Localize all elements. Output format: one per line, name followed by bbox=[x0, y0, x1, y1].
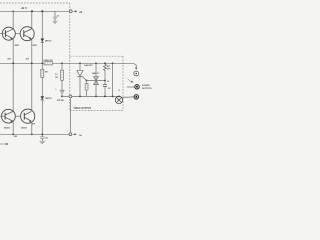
svg-text:1W: 1W bbox=[55, 77, 58, 79]
wire SCR top lead bbox=[79, 63, 81, 70]
node dot out x105 bbox=[104, 96, 106, 98]
capacitor C3 bbox=[40, 137, 45, 139]
node dot lamp bbox=[118, 96, 120, 98]
resistor R5 horizontal bbox=[44, 62, 52, 65]
wire triac TR2 top lead bbox=[95, 63, 97, 76]
node dot out x96 bbox=[95, 96, 97, 98]
wire Q1-Q2 link bbox=[15, 33, 20, 35]
node dot box x80 bbox=[79, 62, 81, 64]
svg-text:1W: 1W bbox=[45, 71, 48, 73]
node dot bottom x13 bbox=[12, 133, 14, 135]
transistor Q2 bbox=[20, 27, 34, 41]
node dot rail x13 bbox=[12, 11, 14, 13]
wire Q2 collector lead bbox=[31, 11, 33, 28]
annotation arrow bbox=[128, 79, 133, 83]
+B supply rail wire bbox=[0, 10, 69, 12]
capacitor C2 bbox=[60, 90, 65, 92]
triac output box top edge bbox=[70, 55, 123, 57]
wire Q4 emitter down bbox=[31, 122, 33, 134]
node dot rail x42 bbox=[41, 10, 43, 12]
node dot mid x62 bbox=[61, 62, 63, 64]
arrow into top terminal bbox=[135, 68, 137, 70]
wire D1 to mid rail bbox=[41, 42, 43, 69]
wire R7 to C2 bbox=[61, 80, 63, 90]
svg-text:+B V: +B V bbox=[21, 6, 28, 10]
ground bbox=[53, 21, 58, 23]
svg-text:TRIAC OUTPUT: TRIAC OUTPUT bbox=[73, 107, 91, 110]
svg-text:OUTPUTS: OUTPUTS bbox=[142, 88, 153, 90]
wire C2 to output wire bbox=[61, 92, 63, 96]
transistor Q4 bbox=[21, 109, 35, 123]
svg-text:+B: +B bbox=[79, 10, 82, 14]
resistor R8 vertical bbox=[85, 84, 88, 91]
wire output into box bbox=[72, 95, 119, 97]
terminal T2 bbox=[135, 85, 139, 89]
triac output box right edge bbox=[122, 56, 124, 110]
wire R9 down bbox=[104, 71, 106, 80]
svg-text:1 MEG 5W: 1 MEG 5W bbox=[43, 60, 53, 62]
wire to C4 bbox=[104, 81, 106, 85]
wire return vertical bbox=[69, 98, 71, 133]
wire TR2 through bbox=[95, 77, 97, 85]
wire feed to top terminal bbox=[133, 63, 136, 69]
node dot box x112 bbox=[112, 62, 114, 64]
triac TR2 bbox=[94, 77, 99, 85]
wire gate bus bbox=[87, 80, 106, 82]
diode D2 bbox=[41, 96, 45, 100]
wire Q1 emitter down bbox=[12, 39, 14, 112]
wire Q3 emitter down bbox=[12, 121, 14, 134]
wire Q3 base stub bbox=[0, 115, 5, 117]
node dot gate bus left bbox=[86, 80, 88, 82]
wire D2 to bottom rail bbox=[41, 100, 43, 137]
wire R8 top stub bbox=[86, 81, 88, 84]
lamp DS1 bbox=[115, 96, 122, 103]
svg-text:MR752: MR752 bbox=[45, 40, 52, 42]
wire R7 branch top bbox=[61, 63, 63, 70]
wire x112 vertical bbox=[112, 63, 114, 96]
arrow B+ bbox=[73, 134, 77, 136]
wire lamp to terminal bbox=[123, 96, 134, 99]
wire R6 to D2 bbox=[41, 77, 43, 96]
wire stub terminal T2 bbox=[127, 86, 135, 88]
diode D1 bbox=[41, 39, 45, 43]
transistor Q1 bbox=[2, 27, 15, 40]
wire TR2 bottom lead bbox=[95, 85, 97, 97]
terminal circle +B bbox=[69, 10, 72, 13]
wire TR1 bottom lead bbox=[79, 76, 81, 96]
wire C3 to ground bbox=[41, 139, 43, 141]
SCR TR1 bbox=[77, 71, 83, 77]
wire Q2 emitter down bbox=[31, 39, 33, 111]
terminal T1 bbox=[134, 71, 139, 76]
wire bottom rail bbox=[0, 133, 69, 135]
node dot C2 out bbox=[61, 96, 63, 98]
triac output box bottom edge bbox=[70, 110, 123, 112]
node dot out x80 bbox=[79, 96, 81, 98]
svg-text:SCREW: SCREW bbox=[142, 85, 151, 87]
dashed boundary left vertical bbox=[69, 3, 71, 111]
wire diode branch top bbox=[41, 11, 43, 38]
dashed boundary top bbox=[0, 2, 70, 4]
terminal circle output upper bbox=[69, 95, 72, 98]
resistor R6 vertical bbox=[41, 69, 44, 77]
svg-text:2N304: 2N304 bbox=[21, 127, 27, 130]
resistor R7 vertical bbox=[61, 70, 64, 80]
wire C1 to ground bbox=[54, 19, 56, 21]
transistor Q3 bbox=[1, 109, 15, 123]
wire bypass branch bbox=[54, 11, 56, 16]
node dot bottom x42 bbox=[41, 133, 43, 135]
svg-text:200 5W: 200 5W bbox=[57, 100, 64, 102]
node dot box x96 bbox=[95, 62, 97, 64]
node dot gate bus right bbox=[104, 80, 106, 82]
wire TR1 gate bbox=[83, 77, 87, 81]
wire bias rail mid bbox=[0, 62, 44, 64]
arrow bottom left lead bbox=[0, 143, 8, 145]
ground bbox=[39, 141, 45, 143]
wire Q1 base stub bbox=[0, 33, 6, 35]
svg-text:2N304: 2N304 bbox=[4, 127, 10, 130]
wire R8 down bbox=[86, 90, 88, 96]
node dot box x105 bbox=[104, 62, 106, 64]
wire C4 down bbox=[104, 87, 106, 97]
terminal T3 bbox=[134, 95, 138, 99]
wire Q3-Q4 link bbox=[15, 115, 21, 117]
svg-text:GAS DET: GAS DET bbox=[84, 64, 93, 67]
wire Q1 collector lead bbox=[12, 11, 14, 28]
svg-text:MAC 97: MAC 97 bbox=[92, 72, 100, 75]
svg-text:MR752: MR752 bbox=[45, 98, 52, 100]
wire output left bbox=[62, 95, 69, 97]
wire bias rail mid right bbox=[52, 62, 133, 64]
node dot bottom x32 bbox=[31, 133, 33, 135]
terminal circle output lower bbox=[69, 133, 72, 136]
node dot out x112 bbox=[112, 96, 114, 98]
node dot mid x13 bbox=[12, 62, 14, 64]
arrow +B bbox=[73, 11, 76, 13]
node dot rail x32 bbox=[31, 10, 33, 12]
node dot mid x32 bbox=[31, 62, 33, 64]
resistor R9 zigzag bbox=[104, 63, 107, 71]
capacitor C1 bbox=[53, 17, 57, 19]
node dot mid x42 bbox=[41, 62, 43, 64]
capacitor C4 bbox=[103, 85, 107, 87]
